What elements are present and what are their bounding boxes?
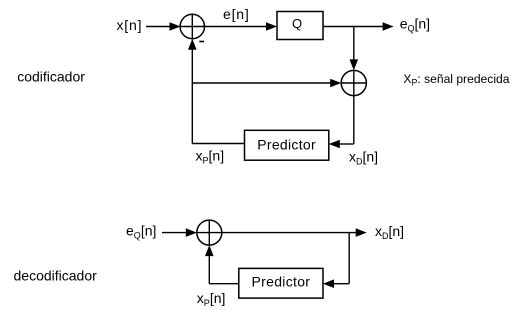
svg-text:xP[n]: xP[n] bbox=[196, 148, 225, 166]
svg-text:xD[n]: xD[n] bbox=[375, 223, 404, 241]
svg-text:eQ[n]: eQ[n] bbox=[400, 16, 430, 34]
svg-text:Predictor: Predictor bbox=[257, 137, 316, 153]
svg-text:xD[n]: xD[n] bbox=[349, 149, 378, 167]
svg-text:decodificador: decodificador bbox=[14, 268, 98, 284]
svg-text:codificador: codificador bbox=[17, 69, 85, 85]
svg-text:e[n]: e[n] bbox=[223, 6, 250, 22]
svg-text:eQ[n]: eQ[n] bbox=[126, 223, 156, 241]
svg-text:xP[n]: xP[n] bbox=[197, 290, 226, 308]
svg-text:x[n]: x[n] bbox=[117, 17, 143, 33]
svg-text:Q: Q bbox=[292, 16, 302, 31]
svg-text:XP: señal predecida: XP: señal predecida bbox=[403, 72, 509, 88]
svg-text:Predictor: Predictor bbox=[252, 274, 311, 290]
